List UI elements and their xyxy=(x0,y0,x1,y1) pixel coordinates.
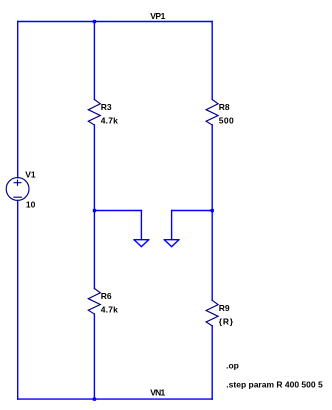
svg-text:4.7k: 4.7k xyxy=(101,304,118,314)
svg-text:R3: R3 xyxy=(101,102,112,112)
voltage source V1 plus sign xyxy=(14,180,21,185)
svg-text:V1: V1 xyxy=(25,170,36,180)
svg-text:4.7k: 4.7k xyxy=(101,115,118,125)
wire right column top (rail to R8) xyxy=(211,22,213,100)
resistor R6 zigzag xyxy=(88,289,100,314)
wire left vertical upper (top rail to V1 plus) xyxy=(17,22,19,178)
wire right column bottom (R9 to bottom rail) xyxy=(211,326,213,399)
voltage source V1 minus sign xyxy=(14,196,21,198)
resistor R8 zigzag xyxy=(206,100,218,126)
resistor R3 zigzag xyxy=(88,100,100,126)
svg-text:R6: R6 xyxy=(101,291,112,301)
wire middle column top (rail to R3) xyxy=(93,22,95,100)
wire ground branch right vertical xyxy=(171,211,173,240)
svg-text:R8: R8 xyxy=(219,102,230,112)
svg-text:.op: .op xyxy=(226,361,239,371)
svg-text:.step param R 400 500 5: .step param R 400 500 5 xyxy=(226,379,323,389)
ground symbol left xyxy=(134,240,149,247)
ground symbol right xyxy=(164,240,179,247)
junction node middle column / left ground branch xyxy=(93,209,96,212)
svg-text:500: 500 xyxy=(219,115,234,125)
voltage source V1 circle xyxy=(6,178,29,201)
resistor R9 zigzag xyxy=(206,300,218,325)
wire ground branch right horizontal xyxy=(172,210,213,212)
wire ground branch left vertical xyxy=(140,211,142,240)
svg-text:{R}: {R} xyxy=(219,317,234,327)
svg-text:VN1: VN1 xyxy=(150,388,165,398)
svg-text:VP1: VP1 xyxy=(150,11,165,21)
wire ground branch left horizontal xyxy=(94,210,141,212)
wire left vertical lower (V1 minus to bottom rail) xyxy=(17,200,19,399)
junction node bottom rail / middle column xyxy=(93,398,96,401)
wire middle column bottom (R6 to bottom rail) xyxy=(93,314,95,399)
wire right column mid (R8 to R9) xyxy=(211,125,213,300)
wire bottom rail VN1 xyxy=(18,398,213,400)
junction node right column / right ground branch xyxy=(211,209,214,212)
svg-text:10: 10 xyxy=(26,200,36,210)
wire top rail VP1 xyxy=(18,21,213,23)
svg-text:R9: R9 xyxy=(219,303,230,313)
wire middle column mid (R3 to R6) xyxy=(93,125,95,289)
junction node top rail / middle column xyxy=(93,20,96,23)
